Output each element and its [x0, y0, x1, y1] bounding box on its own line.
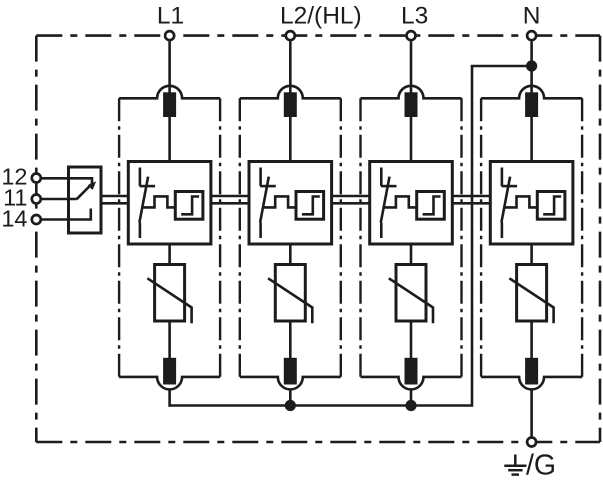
switch fixed contact bar: [260, 185, 276, 188]
step symbol inside trigger box: [302, 197, 320, 215]
trigger box: [296, 192, 324, 220]
wire: spark gap to varistor: [530, 244, 533, 265]
varistor RV2 of module L2/(HL): [275, 265, 305, 322]
switch blade (long diagonal): [260, 177, 269, 223]
switch bottom lead: [259, 223, 262, 239]
trigger box: [175, 192, 203, 220]
thermal disconnector (filled bar) of module N: [525, 92, 538, 117]
switch fixed contact bar: [502, 185, 518, 188]
terminal 12: [32, 174, 41, 183]
device enclosure dash-dot border: left: [35, 36, 38, 442]
bottom bus wire to N riser: [170, 66, 532, 406]
svg-text:N: N: [523, 3, 541, 30]
wire: module L3 lower dome to bottom bus: [410, 389, 413, 405]
switch top lead: [380, 168, 383, 187]
lower disconnector (filled bar) of module L3: [405, 358, 418, 385]
switch top lead: [139, 168, 142, 187]
wire: terminal L1 down to thermal disconnector: [168, 42, 171, 94]
wire: terminal 12 to contact box: [38, 178, 92, 189]
lower disconnector (filled bar) of module N: [525, 358, 538, 385]
thermal disconnector (filled bar) of module L2/(HL): [284, 92, 297, 117]
changeover contact box (remote signalling switch): [69, 167, 102, 233]
switch fixed contact bar: [381, 185, 397, 188]
spark-gap unit U1 (box with switch + trigger symbol): [128, 162, 211, 245]
wire: varistor to lower disconnector: [289, 321, 292, 358]
junction dot at module L2 bottom: [285, 400, 296, 411]
switch bottom lead: [139, 223, 142, 239]
terminal N: [527, 31, 536, 40]
wire: varistor to lower disconnector: [410, 321, 413, 358]
wire: spark gap to varistor: [289, 244, 292, 265]
bus double-line link: [101, 195, 128, 198]
wire: module L2 lower dome to bottom bus: [289, 389, 292, 405]
switch blade (long diagonal): [501, 177, 510, 223]
wire: disconnector to spark-gap unit: [289, 117, 292, 162]
wire: module N lower dome to ground terminal: [530, 389, 533, 437]
module L1 boundary (dash-dot box with plug-contact domes): [119, 86, 220, 99]
wire: spark gap to varistor: [168, 244, 171, 265]
thermal disconnector (filled bar) of module L1: [163, 92, 176, 117]
spark-gap unit U3 (box with switch + trigger symbol): [370, 162, 453, 245]
trigger step waveform wire: [384, 196, 417, 207]
terminal L3: [407, 31, 416, 40]
step symbol inside trigger box: [181, 197, 199, 215]
wire: varistor to lower disconnector: [168, 321, 171, 358]
ground terminal on enclosure border: [527, 438, 536, 447]
wire: varistor to lower disconnector: [530, 321, 533, 358]
switch blade (long diagonal): [381, 177, 390, 223]
switch blade (long diagonal): [139, 177, 148, 223]
wire: terminal 11 to contact pivot: [38, 198, 77, 201]
switch top lead: [501, 168, 504, 187]
junction dot on N conductor: [526, 60, 537, 71]
terminal 14: [32, 215, 41, 224]
module N boundary (dash-dot box with plug-contact domes): [481, 86, 582, 99]
switch top lead: [259, 168, 262, 187]
svg-text:L1: L1: [157, 3, 184, 30]
terminal L1: [165, 31, 174, 40]
wire: terminal 14 to contact (L-shaped): [38, 209, 91, 220]
wire: terminal L2/(HL) down to thermal disconnector: [289, 42, 292, 94]
blade arrowhead: [88, 181, 96, 189]
bus double-line link: [332, 195, 370, 198]
varistor RV1 of module L1: [155, 265, 185, 322]
junction dot at module L3 bottom: [405, 400, 416, 411]
earth ground symbol: [504, 455, 526, 475]
trigger step waveform wire: [505, 196, 538, 207]
trigger box: [537, 192, 565, 220]
step symbol inside trigger box: [423, 197, 441, 215]
bus double-line link: [211, 195, 249, 198]
thermal disconnector (filled bar) of module L3: [405, 92, 418, 117]
trigger step waveform wire: [143, 196, 176, 207]
module L3 boundary (dash-dot box with plug-contact domes): [361, 86, 462, 99]
svg-text:L2/(HL): L2/(HL): [280, 3, 362, 30]
wire: terminal L3 down to thermal disconnector: [410, 42, 413, 94]
step symbol inside trigger box: [543, 197, 561, 215]
svg-text:L3: L3: [401, 3, 428, 30]
switch bottom lead: [501, 223, 504, 239]
lower disconnector (filled bar) of module L1: [163, 358, 176, 385]
varistor RV4 of module N: [517, 265, 547, 322]
terminal L2/(HL): [286, 31, 295, 40]
wire: terminal N down to thermal disconnector: [530, 42, 533, 94]
lower disconnector (filled bar) of module L2/(HL): [284, 358, 297, 385]
wire: disconnector to spark-gap unit: [168, 117, 171, 162]
wire: disconnector to spark-gap unit: [410, 117, 413, 162]
svg-text:/G: /G: [526, 450, 556, 480]
wire: disconnector to spark-gap unit: [530, 117, 533, 162]
terminal 11: [32, 195, 41, 204]
module L2/(HL) boundary (dash-dot box with plug-contact domes): [240, 86, 341, 99]
switch blade 11-12: [77, 184, 92, 199]
wire: spark gap to varistor: [410, 244, 413, 265]
trigger box: [417, 192, 445, 220]
spark-gap unit U4 (box with switch + trigger symbol): [490, 162, 573, 245]
switch bottom lead: [380, 223, 383, 239]
spark-gap unit U2 (box with switch + trigger symbol): [249, 162, 332, 245]
device enclosure dash-dot border: top: [36, 34, 600, 37]
device enclosure dash-dot border: right: [599, 36, 602, 442]
wire: module L1 lower dome to bottom bus: [168, 389, 171, 406]
device enclosure dash-dot border: bottom: [36, 441, 600, 444]
svg-text:14: 14: [1, 206, 27, 232]
bus double-line link: [452, 195, 490, 198]
varistor RV3 of module L3: [396, 265, 426, 322]
trigger step waveform wire: [263, 196, 296, 207]
switch fixed contact bar: [140, 185, 156, 188]
